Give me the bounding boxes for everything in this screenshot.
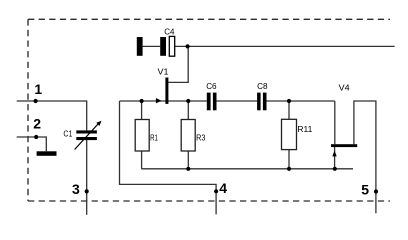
svg-text:5: 5: [361, 182, 369, 198]
svg-text:R1: R1: [150, 133, 158, 142]
svg-text:1: 1: [34, 81, 42, 97]
svg-text:R3: R3: [196, 133, 206, 142]
svg-text:C4: C4: [164, 28, 175, 37]
svg-text:V4: V4: [339, 83, 350, 92]
svg-text:V1: V1: [158, 67, 169, 76]
svg-text:R11: R11: [297, 125, 312, 134]
svg-text:3: 3: [72, 181, 80, 197]
svg-text:C6: C6: [206, 82, 217, 91]
svg-text:4: 4: [219, 180, 227, 196]
svg-text:C8: C8: [257, 82, 268, 91]
svg-text:C1: C1: [63, 130, 72, 139]
svg-text:2: 2: [33, 115, 41, 131]
